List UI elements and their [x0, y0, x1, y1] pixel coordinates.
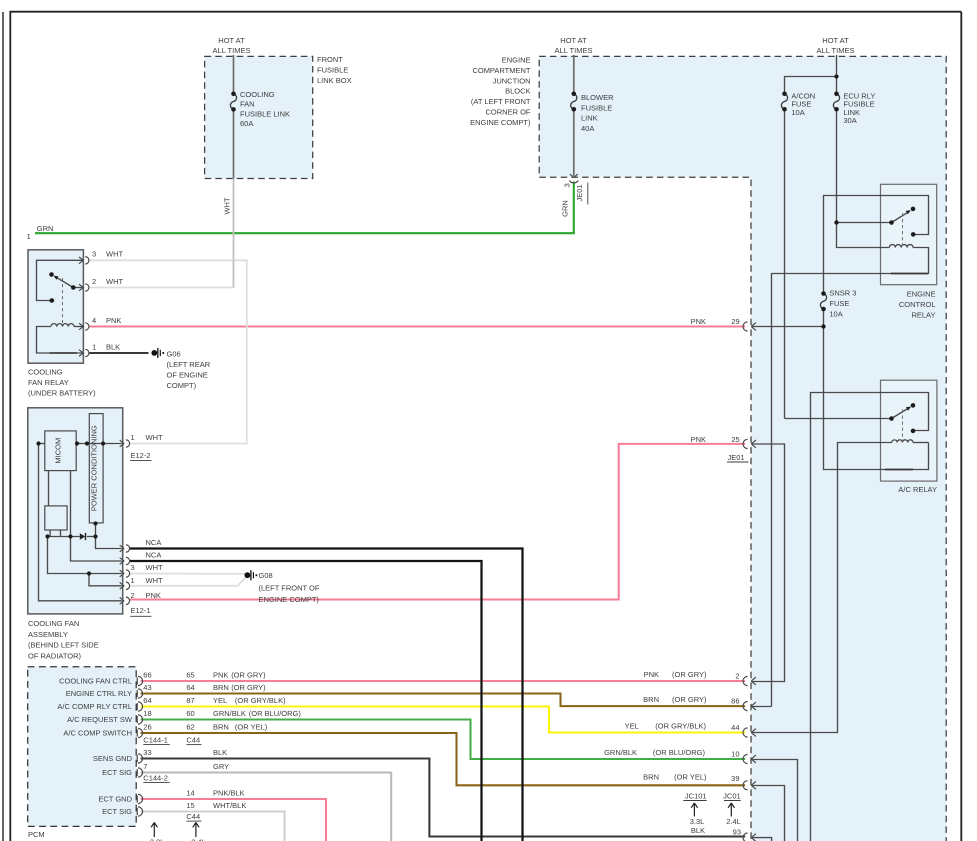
svg-text:ECT GND: ECT GND	[98, 795, 132, 804]
svg-text:GRN: GRN	[37, 224, 54, 233]
svg-text:BLK: BLK	[691, 826, 705, 835]
svg-text:A/C RELAY: A/C RELAY	[898, 485, 937, 494]
svg-text:(AT LEFT FRONT: (AT LEFT FRONT	[471, 97, 531, 106]
svg-text:WHT: WHT	[106, 277, 123, 286]
svg-text:(OR YEL): (OR YEL)	[235, 723, 268, 732]
svg-text:A/C COMP SWITCH: A/C COMP SWITCH	[63, 729, 132, 738]
svg-text:C144-1: C144-1	[143, 736, 168, 745]
svg-text:15: 15	[186, 801, 194, 810]
svg-text:93: 93	[733, 828, 741, 837]
svg-text:BRN: BRN	[213, 683, 229, 692]
svg-text:2.4L: 2.4L	[726, 817, 741, 826]
svg-text:ENGINE COMPT): ENGINE COMPT)	[470, 118, 531, 127]
svg-text:1: 1	[92, 343, 96, 352]
svg-text:NCA: NCA	[146, 538, 162, 547]
svg-text:14: 14	[186, 789, 194, 798]
svg-text:ENGINE CTRL RLY: ENGINE CTRL RLY	[66, 689, 132, 698]
svg-text:ALL TIMES: ALL TIMES	[213, 46, 251, 55]
svg-text:(UNDER BATTERY): (UNDER BATTERY)	[28, 388, 96, 397]
svg-text:COOLING: COOLING	[240, 90, 275, 99]
svg-text:BLOWER: BLOWER	[581, 93, 614, 102]
svg-text:PNK: PNK	[691, 435, 706, 444]
svg-text:MICOM: MICOM	[54, 438, 63, 464]
svg-text:WHT: WHT	[146, 576, 163, 585]
svg-text:E12-2: E12-2	[131, 451, 151, 460]
svg-text:COOLING: COOLING	[28, 367, 63, 376]
svg-text:(LEFT REAR: (LEFT REAR	[167, 360, 211, 369]
svg-text:FAN: FAN	[240, 100, 255, 109]
svg-text:26: 26	[143, 723, 151, 732]
svg-text:64: 64	[143, 696, 151, 705]
svg-text:(OR YEL): (OR YEL)	[674, 773, 707, 782]
svg-text:COMPT): COMPT)	[167, 381, 197, 390]
svg-text:C44: C44	[186, 812, 200, 821]
svg-text:87: 87	[186, 696, 194, 705]
svg-text:HOT AT: HOT AT	[822, 36, 849, 45]
svg-text:(OR GRY): (OR GRY)	[672, 695, 707, 704]
svg-text:29: 29	[731, 317, 739, 326]
svg-text:COOLING FAN: COOLING FAN	[28, 619, 79, 628]
svg-text:7: 7	[143, 762, 147, 771]
svg-text:ECT SIG: ECT SIG	[102, 768, 132, 777]
svg-text:PNK: PNK	[691, 317, 706, 326]
svg-text:(LEFT FRONT OF: (LEFT FRONT OF	[259, 584, 320, 593]
svg-text:10A: 10A	[791, 108, 804, 117]
svg-text:1: 1	[131, 433, 135, 442]
svg-text:GRN/BLK: GRN/BLK	[604, 748, 637, 757]
svg-text:SENS GND: SENS GND	[93, 754, 133, 763]
svg-text:CORNER OF: CORNER OF	[486, 108, 531, 117]
svg-text:YEL: YEL	[625, 721, 639, 730]
svg-text:3.3L: 3.3L	[690, 817, 705, 826]
svg-text:ALL TIMES: ALL TIMES	[817, 46, 855, 55]
svg-text:44: 44	[731, 723, 739, 732]
svg-text:4: 4	[92, 316, 96, 325]
svg-text:COOLING FAN CTRL: COOLING FAN CTRL	[59, 677, 132, 686]
svg-text:(OR BLU/ORG): (OR BLU/ORG)	[653, 748, 706, 757]
svg-text:NCA: NCA	[146, 551, 162, 560]
svg-text:RELAY: RELAY	[911, 310, 935, 319]
svg-text:ENGINE: ENGINE	[502, 56, 531, 65]
svg-text:PNK/BLK: PNK/BLK	[213, 789, 245, 798]
svg-text:(OR GRY): (OR GRY)	[231, 671, 266, 680]
svg-text:65: 65	[186, 671, 194, 680]
svg-text:(OR GRY): (OR GRY)	[672, 670, 707, 679]
svg-text:60: 60	[186, 709, 194, 718]
svg-text:A/C COMP RLY CTRL: A/C COMP RLY CTRL	[57, 702, 132, 711]
svg-text:39: 39	[731, 774, 739, 783]
svg-text:ECT SIG: ECT SIG	[102, 807, 132, 816]
svg-text:PCM: PCM	[28, 830, 45, 839]
svg-text:WHT/BLK: WHT/BLK	[213, 801, 246, 810]
svg-text:PNK: PNK	[213, 671, 228, 680]
svg-text:ASSEMBLY: ASSEMBLY	[28, 630, 68, 639]
svg-text:G08: G08	[259, 571, 273, 580]
svg-text:JUNCTION: JUNCTION	[493, 76, 531, 85]
svg-text:JC01: JC01	[723, 791, 741, 800]
svg-text:43: 43	[143, 683, 151, 692]
svg-text:2.4L: 2.4L	[191, 838, 206, 841]
svg-text:10A: 10A	[829, 309, 842, 318]
svg-text:BRN: BRN	[213, 723, 229, 732]
svg-text:YEL: YEL	[213, 696, 227, 705]
svg-text:G06: G06	[167, 349, 181, 358]
svg-text:GRN: GRN	[561, 200, 570, 217]
svg-text:2: 2	[735, 672, 739, 681]
svg-text:30A: 30A	[843, 116, 856, 125]
svg-text:BRN: BRN	[643, 695, 659, 704]
svg-text:1: 1	[131, 576, 135, 585]
svg-text:2: 2	[92, 277, 96, 286]
svg-text:CONTROL: CONTROL	[899, 300, 936, 309]
svg-text:FUSIBLE: FUSIBLE	[581, 103, 612, 112]
svg-text:3.3L: 3.3L	[150, 838, 165, 841]
svg-text:(BEHIND LEFT SIDE: (BEHIND LEFT SIDE	[28, 641, 99, 650]
svg-text:10: 10	[731, 750, 739, 759]
svg-text:COMPARTMENT: COMPARTMENT	[472, 66, 530, 75]
svg-text:PNK: PNK	[106, 316, 121, 325]
svg-text:BLOCK: BLOCK	[505, 87, 530, 96]
svg-text:LINK: LINK	[581, 114, 598, 123]
svg-text:25: 25	[731, 435, 739, 444]
svg-text:ENGINE COMPT): ENGINE COMPT)	[259, 595, 320, 604]
svg-text:C44: C44	[186, 736, 200, 745]
svg-text:JC101: JC101	[685, 791, 707, 800]
svg-text:62: 62	[186, 723, 194, 732]
svg-text:ENGINE: ENGINE	[907, 289, 936, 298]
svg-text:FRONT: FRONT	[317, 55, 343, 64]
svg-text:E12-1: E12-1	[131, 606, 151, 615]
svg-text:3: 3	[562, 183, 571, 187]
svg-text:JE01: JE01	[575, 184, 584, 201]
svg-text:PNK: PNK	[644, 670, 659, 679]
svg-text:60A: 60A	[240, 119, 253, 128]
svg-text:HOT AT: HOT AT	[560, 36, 587, 45]
svg-text:FUSIBLE LINK: FUSIBLE LINK	[240, 109, 290, 118]
svg-text:GRN/BLK: GRN/BLK	[213, 709, 246, 718]
svg-text:(OR BLU/ORG): (OR BLU/ORG)	[249, 709, 302, 718]
svg-text:HOT AT: HOT AT	[218, 36, 245, 45]
svg-text:WHT: WHT	[146, 563, 163, 572]
svg-text:GRY: GRY	[213, 762, 229, 771]
svg-text:BLK: BLK	[106, 343, 120, 352]
svg-text:(OR GRY): (OR GRY)	[231, 683, 266, 692]
svg-text:BLK: BLK	[213, 748, 227, 757]
svg-text:WHT: WHT	[146, 433, 163, 442]
svg-text:SNSR 3: SNSR 3	[829, 289, 856, 298]
svg-text:86: 86	[731, 697, 739, 706]
svg-text:64: 64	[186, 683, 194, 692]
svg-text:C144-2: C144-2	[143, 774, 168, 783]
svg-text:FAN RELAY: FAN RELAY	[28, 378, 69, 387]
svg-text:OF ENGINE: OF ENGINE	[167, 370, 208, 379]
svg-text:POWER CONDITIONING: POWER CONDITIONING	[90, 425, 99, 511]
svg-text:FUSIBLE: FUSIBLE	[317, 65, 348, 74]
svg-text:18: 18	[143, 709, 151, 718]
svg-text:A/C REQUEST SW: A/C REQUEST SW	[67, 715, 133, 724]
svg-text:33: 33	[143, 748, 151, 757]
svg-text:3: 3	[92, 250, 96, 259]
svg-text:LINK BOX: LINK BOX	[317, 76, 352, 85]
svg-text:1: 1	[27, 232, 31, 241]
svg-text:PNK: PNK	[146, 591, 161, 600]
svg-text:2: 2	[131, 591, 135, 600]
svg-text:ALL TIMES: ALL TIMES	[555, 46, 593, 55]
svg-text:JE01: JE01	[728, 453, 745, 462]
svg-text:40A: 40A	[581, 124, 594, 133]
svg-text:FUSE: FUSE	[829, 299, 849, 308]
svg-text:WHT: WHT	[106, 250, 123, 259]
svg-text:(OR GRY/BLK): (OR GRY/BLK)	[655, 721, 706, 730]
svg-text:3: 3	[131, 563, 135, 572]
svg-text:66: 66	[143, 671, 151, 680]
svg-text:OF RADIATOR): OF RADIATOR)	[28, 651, 82, 660]
svg-text:WHT: WHT	[223, 197, 232, 214]
svg-text:(OR GRY/BLK): (OR GRY/BLK)	[235, 696, 286, 705]
svg-text:BRN: BRN	[643, 773, 659, 782]
